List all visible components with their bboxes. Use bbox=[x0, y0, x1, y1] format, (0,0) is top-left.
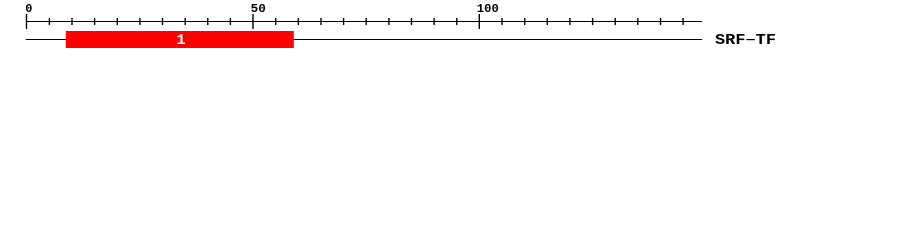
ruler major tick 0 bbox=[26, 14, 27, 29]
svg-text:100: 100 bbox=[477, 2, 499, 16]
ruler major tick 100 bbox=[479, 14, 480, 29]
svg-text:1: 1 bbox=[176, 32, 185, 49]
domain box SRF-TF (red) bbox=[66, 31, 294, 48]
sequence line bbox=[26, 39, 702, 40]
svg-text:SRF TF: SRF TF bbox=[715, 32, 776, 49]
svg-text:0: 0 bbox=[25, 2, 32, 16]
ruler minor ticks bbox=[49, 18, 684, 25]
ruler axis line bbox=[26, 21, 702, 22]
dash of SRF-TF label bbox=[746, 39, 754, 40]
ruler major tick 50 bbox=[252, 14, 253, 29]
svg-text:50: 50 bbox=[251, 2, 266, 16]
